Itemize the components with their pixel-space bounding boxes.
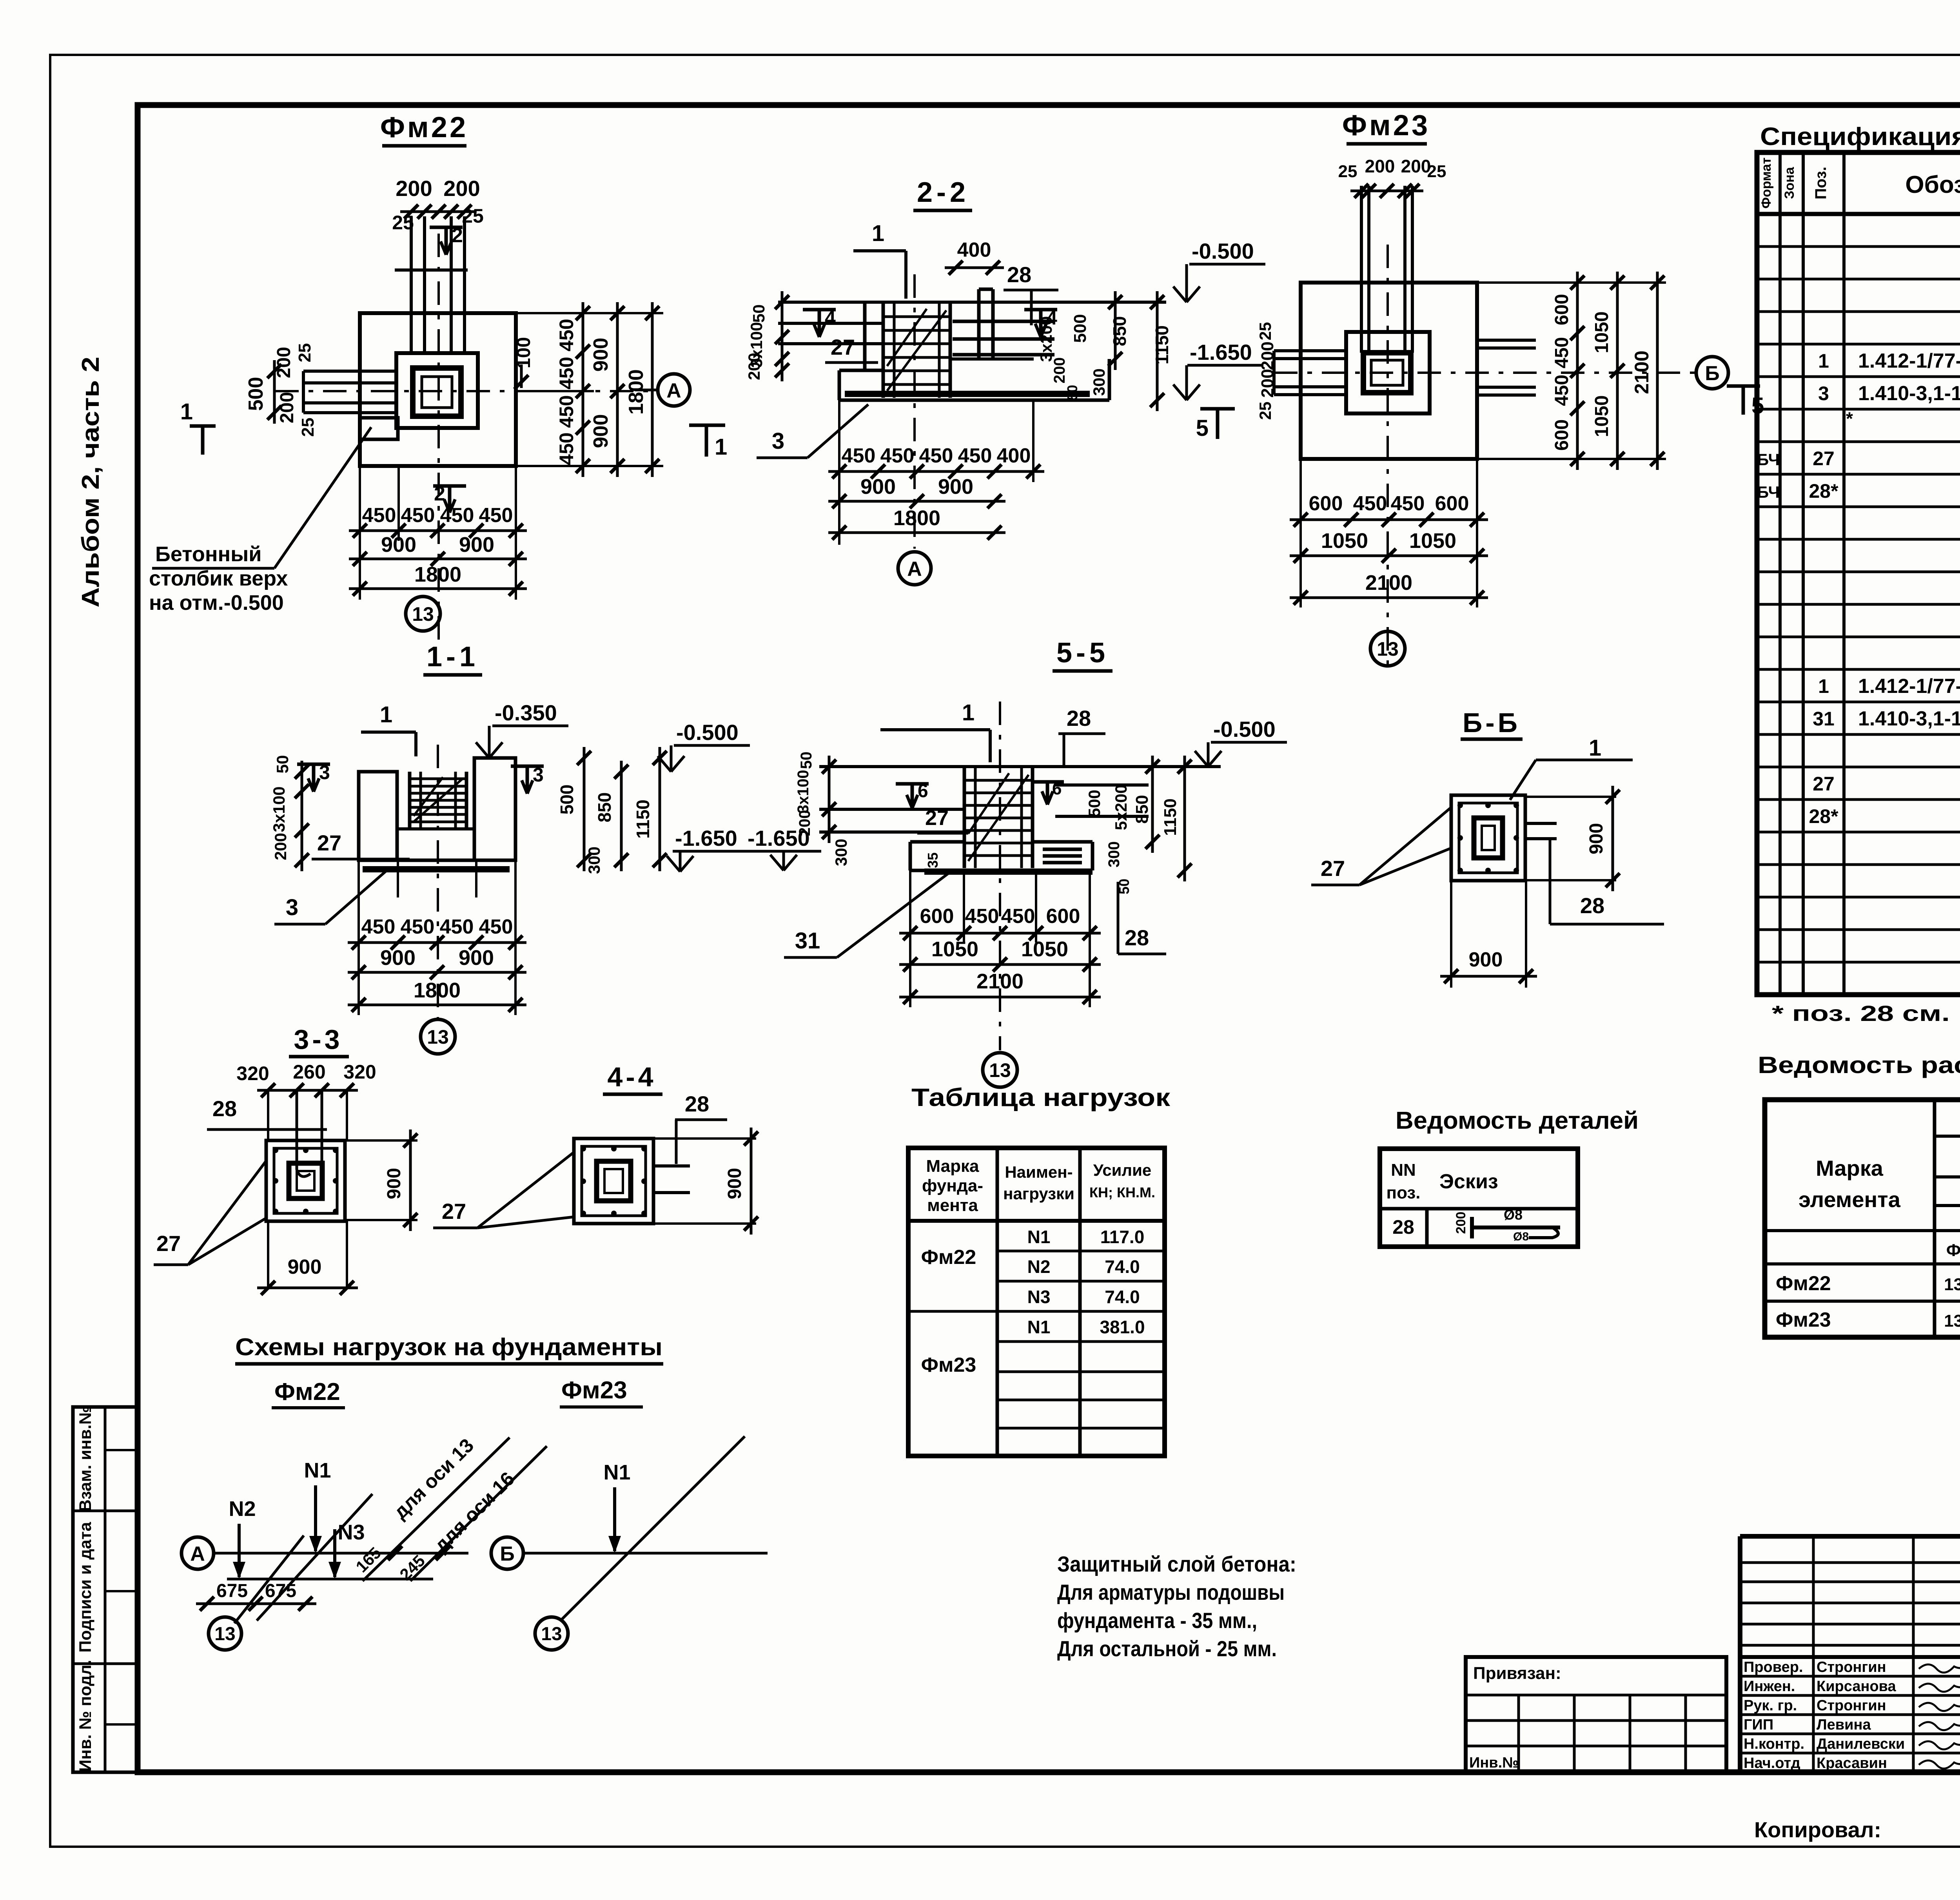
svg-text:-0.500: -0.500 xyxy=(1213,717,1276,742)
svg-text:Красавин: Красавин xyxy=(1817,1755,1887,1771)
section 5-5 rebar cage xyxy=(963,768,966,868)
svg-text:200: 200 xyxy=(1258,341,1277,370)
load scheme FM22 short diagonal 2 xyxy=(257,1494,372,1621)
plan FM22 right dimension chain 450x4 xyxy=(582,302,584,477)
section 1-1 bottom dimension chain 900x2 xyxy=(348,971,526,974)
section 1-1 bottom extension lines xyxy=(397,860,399,897)
svg-text:850: 850 xyxy=(1132,795,1152,823)
svg-text:фундамента - 35 мм.,: фундамента - 35 мм., xyxy=(1057,1608,1257,1633)
plan FM22 column section square xyxy=(413,368,461,416)
svg-text:А: А xyxy=(190,1543,205,1565)
svg-text:50: 50 xyxy=(1064,385,1080,401)
svg-text:N3: N3 xyxy=(338,1521,365,1544)
section 5-5 small marks right of cage xyxy=(1031,780,1064,784)
svg-text:Марка: Марка xyxy=(926,1157,979,1176)
svg-text:450: 450 xyxy=(880,444,915,467)
svg-text:200: 200 xyxy=(1365,156,1395,176)
svg-text:675: 675 xyxy=(216,1581,248,1601)
svg-text:3х100: 3х100 xyxy=(795,770,812,813)
section 1-1 right block outline xyxy=(474,758,515,860)
svg-text:450: 450 xyxy=(440,504,474,527)
svg-text:N2: N2 xyxy=(1027,1256,1051,1277)
svg-text:74.0: 74.0 xyxy=(1105,1256,1140,1277)
svg-text:Фм22: Фм22 xyxy=(921,1246,976,1269)
svg-text:450: 450 xyxy=(440,916,474,938)
svg-text:6: 6 xyxy=(918,781,928,801)
plan FM22 left dimensions xyxy=(273,360,276,424)
plan FM22 right dimension chain 900x2 xyxy=(616,302,619,477)
svg-text:Формат: Формат xyxy=(1759,158,1774,208)
section 5-5 bottom extension lines xyxy=(909,870,911,1007)
svg-text:200: 200 xyxy=(1258,369,1277,397)
load scheme FM22 axis line xyxy=(213,1552,468,1555)
svg-text:28: 28 xyxy=(1125,925,1149,950)
svg-text:450: 450 xyxy=(401,916,435,938)
details list grid xyxy=(1380,1149,1578,1247)
section 5-5 bottom outline xyxy=(910,869,1093,872)
svg-text:1050: 1050 xyxy=(1592,312,1612,354)
svg-text:-0.500: -0.500 xyxy=(1192,239,1254,263)
cut mark 1 right of plan FM22 xyxy=(689,424,725,427)
section 3-3 bottom dim 900 xyxy=(257,1287,358,1289)
svg-text:28: 28 xyxy=(1580,893,1604,918)
section B-B bottom dim 900 xyxy=(1440,975,1537,978)
specification table outer box xyxy=(1757,152,1960,995)
svg-text:Инжен.: Инжен. xyxy=(1744,1678,1795,1695)
plan FM22 cut mark 2 bottom xyxy=(433,484,466,488)
svg-text:N2: N2 xyxy=(229,1497,256,1521)
svg-text:Инв.№: Инв.№ xyxy=(1469,1755,1519,1771)
svg-text:фунда-: фунда- xyxy=(922,1176,983,1195)
section 5-5 position 28 bars right xyxy=(1043,848,1082,851)
section 2-2 cut mark 1 top xyxy=(853,249,906,252)
section 1-1 socket bottom line xyxy=(397,827,474,830)
svg-text:1800: 1800 xyxy=(625,369,648,415)
svg-text:Фм23: Фм23 xyxy=(921,1354,976,1376)
plan FM23 wall strips going left xyxy=(1274,349,1346,352)
svg-text:450: 450 xyxy=(479,504,513,527)
svg-text:25: 25 xyxy=(1256,402,1274,420)
svg-text:1150: 1150 xyxy=(1152,325,1172,364)
svg-text:мента: мента xyxy=(927,1196,978,1215)
plan FM22 concrete post rectangle xyxy=(360,418,398,439)
svg-text:Фм23: Фм23 xyxy=(561,1377,627,1404)
load scheme FM22 leader diagonal to circle 13 xyxy=(234,1536,304,1623)
section 5-5 cut mark 6 xyxy=(896,782,929,786)
svg-text:NN: NN xyxy=(1391,1160,1416,1180)
svg-text:Ведомость расхода стали на оди: Ведомость расхода стали на один элемент,… xyxy=(1758,1052,1960,1078)
section 2-2 cut mark 5 xyxy=(1200,407,1235,411)
svg-text:Ø8: Ø8 xyxy=(1504,1207,1523,1223)
svg-text:25: 25 xyxy=(1338,162,1357,181)
load scheme FM22 dim 675 675 xyxy=(196,1603,316,1605)
svg-text:Провер.: Провер. xyxy=(1744,1659,1803,1675)
svg-text:-0.350: -0.350 xyxy=(495,700,557,725)
svg-text:-0.500: -0.500 xyxy=(676,720,739,745)
section 2-2 left dimension column xyxy=(781,291,784,381)
section 2-2 right column outline xyxy=(977,289,981,359)
svg-text:Фм22: Фм22 xyxy=(274,1378,340,1405)
axis circle 13 below section 1-1 xyxy=(421,1019,455,1054)
loads table grid xyxy=(908,1148,1165,1456)
svg-text:13.5: 13.5 xyxy=(1944,1275,1960,1294)
load scheme FM22 arrow N2 xyxy=(238,1524,241,1577)
section B-B stub lines right xyxy=(1525,822,1557,825)
svg-text:3: 3 xyxy=(286,895,298,920)
plan FM22 vertical centerline xyxy=(437,234,440,643)
plan FM22 column strips going up xyxy=(410,216,413,353)
section 4-4 stub lines right xyxy=(653,1164,690,1168)
section 1-1 centerline xyxy=(437,745,439,1019)
section 2-2 dim 400 xyxy=(945,267,1004,269)
plan FM22 outer foundation square xyxy=(360,313,516,466)
svg-text:2: 2 xyxy=(452,224,463,247)
svg-text:28*: 28* xyxy=(1809,480,1838,502)
svg-text:200: 200 xyxy=(396,176,432,201)
svg-text:675: 675 xyxy=(265,1581,296,1601)
svg-text:900: 900 xyxy=(459,533,494,557)
svg-text:600: 600 xyxy=(1309,492,1343,515)
svg-text:N3: N3 xyxy=(1027,1287,1051,1307)
section 1-1 left dimension column xyxy=(301,761,303,871)
steel table structure lines xyxy=(1933,1100,1936,1337)
svg-text:Бетонный: Бетонный xyxy=(155,542,261,566)
svg-text:13,5: 13,5 xyxy=(1944,1311,1960,1331)
svg-text:25: 25 xyxy=(298,418,318,437)
svg-text:Ведомость деталей: Ведомость деталей xyxy=(1396,1107,1639,1134)
plan FM23 pedestal square xyxy=(1346,332,1430,413)
svg-text:117.0: 117.0 xyxy=(1100,1227,1145,1247)
svg-text:2100: 2100 xyxy=(1365,571,1412,595)
section 1-1 bottom dimension 1800 xyxy=(348,1004,526,1006)
load scheme FM22 diagonal for axis 13 xyxy=(363,1438,510,1581)
svg-text:Схемы нагрузок на фундамент: Схемы нагрузок на фундаменты xyxy=(235,1334,662,1361)
svg-text:-1.650: -1.650 xyxy=(1190,340,1252,364)
plan FM23 vertical centerline xyxy=(1387,245,1389,666)
svg-text:200: 200 xyxy=(277,392,298,423)
svg-text:1050: 1050 xyxy=(1592,395,1612,437)
section 1-1 cut mark 1 top xyxy=(361,731,416,734)
svg-text:Левина: Левина xyxy=(1817,1717,1871,1733)
svg-text:5х200: 5х200 xyxy=(1112,785,1130,830)
section 2-2 cut marks 4 xyxy=(803,308,836,312)
svg-text:1.412-1/77-В.3-020: 1.412-1/77-В.3-020 xyxy=(1858,675,1960,698)
plan FM23 bottom dimension 2100 xyxy=(1290,596,1488,599)
section B-B column square xyxy=(1451,795,1525,881)
svg-text:450: 450 xyxy=(555,432,577,465)
section 3-3 column square xyxy=(266,1140,345,1221)
svg-text:Поз.: Поз. xyxy=(1812,167,1829,199)
svg-text:27: 27 xyxy=(1813,448,1835,470)
plan FM23 top dimension 25 200 200 25 xyxy=(1350,190,1423,192)
svg-text:381.0: 381.0 xyxy=(1100,1317,1145,1337)
section 5-5 left rotated dims xyxy=(828,756,831,843)
svg-text:28: 28 xyxy=(685,1091,709,1116)
svg-text:27: 27 xyxy=(925,806,949,830)
svg-text:27: 27 xyxy=(1813,773,1835,795)
svg-text:Данилевски: Данилевски xyxy=(1817,1736,1905,1752)
svg-text:1: 1 xyxy=(872,221,884,246)
svg-text:Зона: Зона xyxy=(1782,167,1797,199)
plan FM22 bottom dimension chain 900x2 xyxy=(349,558,527,560)
load scheme FM23 axis line xyxy=(523,1552,768,1555)
svg-text:3х100: 3х100 xyxy=(270,787,288,832)
svg-text:27: 27 xyxy=(442,1199,466,1224)
svg-text:900: 900 xyxy=(380,946,416,970)
svg-text:1800: 1800 xyxy=(893,506,940,530)
section 1-1 footing mesh heavy line xyxy=(363,866,510,872)
svg-text:450: 450 xyxy=(842,444,876,467)
svg-text:Н.контр.: Н.контр. xyxy=(1744,1736,1804,1752)
svg-text:500: 500 xyxy=(1071,314,1090,343)
section 5-5 footing mesh heavy line xyxy=(924,868,1093,875)
svg-text:* поз. 28 см. ведомость детал: * поз. 28 см. ведомость деталей на данно… xyxy=(1772,1001,1960,1026)
svg-text:900: 900 xyxy=(590,414,612,448)
svg-text:900: 900 xyxy=(381,533,416,557)
svg-text:450: 450 xyxy=(362,504,396,527)
svg-text:1: 1 xyxy=(180,399,193,424)
svg-text:50: 50 xyxy=(750,305,768,323)
cut mark 5 right of plan FM23 xyxy=(1727,384,1760,388)
section 5-5 cut mark 1 top xyxy=(880,728,990,731)
svg-text:1-1: 1-1 xyxy=(426,641,479,673)
svg-text:-1.650: -1.650 xyxy=(675,826,737,850)
svg-text:1: 1 xyxy=(962,700,975,725)
svg-text:35: 35 xyxy=(925,852,941,868)
svg-text:Фм22: Фм22 xyxy=(1776,1272,1831,1295)
title block signature rows xyxy=(1740,1655,1960,1659)
svg-text:200: 200 xyxy=(796,810,813,836)
axis circle 13 below section 5-5 xyxy=(983,1053,1017,1087)
svg-text:Б: Б xyxy=(500,1543,514,1565)
section B-B right dim 900 xyxy=(1612,786,1614,891)
svg-text:25: 25 xyxy=(392,212,414,234)
svg-text:450: 450 xyxy=(958,444,992,467)
plan FM23 horizontal centerline xyxy=(1274,372,1696,374)
svg-text:900: 900 xyxy=(384,1168,405,1199)
svg-text:300: 300 xyxy=(1105,841,1123,868)
section 4-4 right extension lines xyxy=(653,1137,756,1140)
svg-text:28: 28 xyxy=(1007,262,1031,287)
svg-text:1150: 1150 xyxy=(1161,798,1180,836)
plan FM23 bottom dimension chain 1050x2 xyxy=(1290,555,1488,557)
svg-text:3: 3 xyxy=(533,764,544,786)
plan FM22 cut mark 2 top xyxy=(430,226,463,229)
section B-B right extension lines xyxy=(1525,796,1616,798)
plan FM22 bottom extension lines xyxy=(397,466,400,541)
svg-text:1050: 1050 xyxy=(931,937,978,961)
svg-text:Инв. № подл.: Инв. № подл. xyxy=(76,1660,95,1771)
plan FM23 bottom extension lines xyxy=(1299,459,1302,607)
axis circle 13 load scheme FM22 xyxy=(209,1617,241,1650)
plan FM23 right dimension 2100 xyxy=(1656,272,1659,470)
plan FM23 right dimension chain 1050x2 xyxy=(1616,272,1619,470)
svg-text:900: 900 xyxy=(590,338,612,372)
svg-text:25: 25 xyxy=(1256,322,1274,341)
svg-text:Марка: Марка xyxy=(1816,1156,1884,1180)
svg-text:Наимен-: Наимен- xyxy=(1005,1163,1073,1181)
svg-text:3: 3 xyxy=(772,428,784,454)
svg-text:300: 300 xyxy=(1090,368,1108,396)
svg-text:Обозначение: Обозначение xyxy=(1905,171,1960,198)
plan FM23 outer foundation square xyxy=(1301,283,1477,459)
svg-text:27: 27 xyxy=(1321,856,1345,881)
svg-text:1.410-3,1-12: 1.410-3,1-12 xyxy=(1858,707,1960,730)
svg-text:600: 600 xyxy=(1435,492,1469,515)
svg-text:27: 27 xyxy=(156,1231,181,1256)
svg-text:Рук. гр.: Рук. гр. xyxy=(1744,1697,1797,1714)
svg-text:450: 450 xyxy=(1353,492,1387,515)
plan FM22 right dimension 1800 xyxy=(651,302,654,477)
svg-text:900: 900 xyxy=(288,1256,322,1278)
svg-text:450: 450 xyxy=(555,319,577,351)
svg-text:Фм23: Фм23 xyxy=(1342,109,1430,141)
svg-text:БЧ: БЧ xyxy=(1757,450,1780,469)
svg-text:3: 3 xyxy=(319,761,330,783)
axis circle 13 load scheme FM23 xyxy=(535,1617,568,1650)
svg-text:450: 450 xyxy=(1552,337,1572,368)
svg-text:200: 200 xyxy=(1401,156,1431,176)
section B-B bottom extension lines xyxy=(1450,881,1452,988)
svg-text:3х200: 3х200 xyxy=(1037,316,1055,362)
svg-text:Таблица нагрузок: Таблица нагрузок xyxy=(911,1083,1171,1111)
section 1-1 left block outline xyxy=(359,772,397,860)
svg-text:320: 320 xyxy=(343,1061,376,1083)
svg-text:900: 900 xyxy=(459,946,494,970)
section 1-1 right dims xyxy=(583,747,586,871)
svg-text:1050: 1050 xyxy=(1321,529,1368,553)
svg-text:элемента: элемента xyxy=(1798,1187,1901,1212)
svg-text:Защитный слой бетона:: Защитный слой бетона: xyxy=(1057,1552,1296,1576)
svg-text:Для остальной - 25 мм.: Для остальной - 25 мм. xyxy=(1057,1636,1277,1661)
svg-text:200: 200 xyxy=(1454,1212,1468,1234)
svg-text:900: 900 xyxy=(860,475,896,499)
svg-text:1150: 1150 xyxy=(633,800,653,839)
svg-text:1800: 1800 xyxy=(414,563,461,586)
svg-text:нагрузки: нагрузки xyxy=(1003,1184,1074,1203)
svg-text:100: 100 xyxy=(514,337,534,368)
svg-text:31: 31 xyxy=(1813,708,1835,730)
svg-text:1.410-3,1-12: 1.410-3,1-12 xyxy=(1858,382,1960,405)
section 3-3 extension verticals xyxy=(267,1090,269,1140)
svg-text:КН; КН.М.: КН; КН.М. xyxy=(1089,1184,1155,1200)
section 5-5 bottom dimension chain 1050x2 xyxy=(899,963,1101,966)
svg-text:1.412-1/77-В.3-020: 1.412-1/77-В.3-020 xyxy=(1858,350,1960,372)
svg-text:Для арматуры подошвы: Для арматуры подошвы xyxy=(1057,1580,1285,1604)
svg-text:450: 450 xyxy=(919,444,953,467)
section 2-2 bottom dimension chain 900x2 xyxy=(828,500,1005,503)
svg-text:50: 50 xyxy=(273,755,292,774)
svg-text:1: 1 xyxy=(380,702,392,727)
section 2-2 ground line xyxy=(778,301,1166,304)
svg-text:N1: N1 xyxy=(1027,1317,1051,1337)
load scheme FM23 diagonal xyxy=(561,1436,745,1621)
svg-text:450: 450 xyxy=(401,504,435,527)
svg-text:2-2: 2-2 xyxy=(917,177,969,208)
svg-text:500: 500 xyxy=(245,377,267,411)
section 3-3 right dim 900 xyxy=(409,1129,412,1231)
section 5-5 centerline xyxy=(999,702,1001,1050)
load scheme FM22 arrow N3 xyxy=(333,1529,336,1577)
section 2-2 position 27 bars left xyxy=(778,322,883,325)
svg-text:Подписи и дата: Подписи и дата xyxy=(76,1521,95,1652)
plan FM22 bottom dimension 1800 xyxy=(349,587,527,590)
svg-text:13: 13 xyxy=(214,1624,235,1644)
svg-text:Копировал:: Копировал: xyxy=(1754,1817,1881,1842)
svg-text:А: А xyxy=(907,558,922,580)
section 3-3 right extension lines xyxy=(345,1139,417,1142)
svg-text:А: А xyxy=(666,379,681,402)
section 3-3 top dims 320 260 320 xyxy=(257,1089,358,1092)
svg-text:260: 260 xyxy=(293,1061,325,1083)
svg-text:Альбом 2, часть 2: Альбом 2, часть 2 xyxy=(77,357,104,607)
section 2-2 rebar cage xyxy=(882,303,885,398)
svg-text:поз.: поз. xyxy=(1387,1183,1421,1202)
section 2-2 centerline xyxy=(913,274,916,549)
svg-text:Стронгин: Стронгин xyxy=(1817,1659,1886,1675)
svg-text:500: 500 xyxy=(557,785,577,815)
load scheme FM23 arrow N1 xyxy=(613,1487,616,1551)
title block left annex box xyxy=(1466,1657,1726,1772)
section 1-1 bottom outline xyxy=(359,859,515,862)
title block main outline xyxy=(1740,1534,1960,1539)
svg-text:450: 450 xyxy=(555,395,577,428)
section 5-5 ground line xyxy=(819,765,1221,768)
svg-text:Кирсанова: Кирсанова xyxy=(1817,1678,1896,1695)
svg-text:28: 28 xyxy=(1392,1216,1414,1238)
svg-text:2100: 2100 xyxy=(976,970,1024,993)
svg-text:на отм.-0.500: на отм.-0.500 xyxy=(149,591,284,615)
svg-text:450: 450 xyxy=(1391,492,1425,515)
svg-text:28: 28 xyxy=(1067,706,1091,731)
svg-text:3-3: 3-3 xyxy=(294,1024,343,1055)
svg-text:Взам. инв.№: Взам. инв.№ xyxy=(76,1406,95,1512)
svg-text:900: 900 xyxy=(938,475,973,499)
svg-text:200: 200 xyxy=(745,353,763,380)
svg-text:1: 1 xyxy=(1589,735,1601,761)
plan FM22 extension lines right xyxy=(516,312,663,314)
svg-text:N1: N1 xyxy=(304,1459,331,1482)
specification table column lines xyxy=(1779,152,1782,995)
svg-text:850: 850 xyxy=(1109,316,1130,346)
svg-text:600: 600 xyxy=(1552,419,1572,451)
svg-text:320: 320 xyxy=(236,1062,269,1084)
svg-text:6: 6 xyxy=(1052,779,1062,798)
svg-text:28: 28 xyxy=(212,1096,237,1121)
svg-text:Спецификация монолитных фундам: Спецификация монолитных фундаментов Фм22… xyxy=(1760,122,1960,150)
axis circle A below section 2-2 xyxy=(898,552,931,585)
plan FM23 column section square xyxy=(1363,353,1411,393)
plan FM22 pedestal square xyxy=(396,353,478,428)
svg-text:600: 600 xyxy=(1552,294,1572,325)
svg-text:3: 3 xyxy=(1818,383,1829,404)
svg-text:27: 27 xyxy=(831,335,855,359)
svg-text:600: 600 xyxy=(920,905,954,928)
svg-text:25: 25 xyxy=(1427,162,1446,181)
svg-text:28*: 28* xyxy=(1809,805,1838,827)
svg-text:900: 900 xyxy=(1586,823,1607,854)
svg-text:1050: 1050 xyxy=(1409,529,1456,553)
plan FM22 bottom dimension chain 450x4 xyxy=(349,529,527,532)
section 4-4 right dim 900 xyxy=(750,1128,753,1235)
svg-text:300: 300 xyxy=(585,847,603,874)
axis circle 13 of plan FM23 xyxy=(1370,631,1405,666)
svg-text:1800: 1800 xyxy=(414,979,461,1002)
cut mark 1 left of plan FM22 xyxy=(190,424,216,428)
section 5-5 bottom dimension chain 600 450 450 600 xyxy=(899,932,1101,935)
svg-text:74.0: 74.0 xyxy=(1105,1287,1140,1307)
svg-text:13: 13 xyxy=(989,1059,1011,1081)
